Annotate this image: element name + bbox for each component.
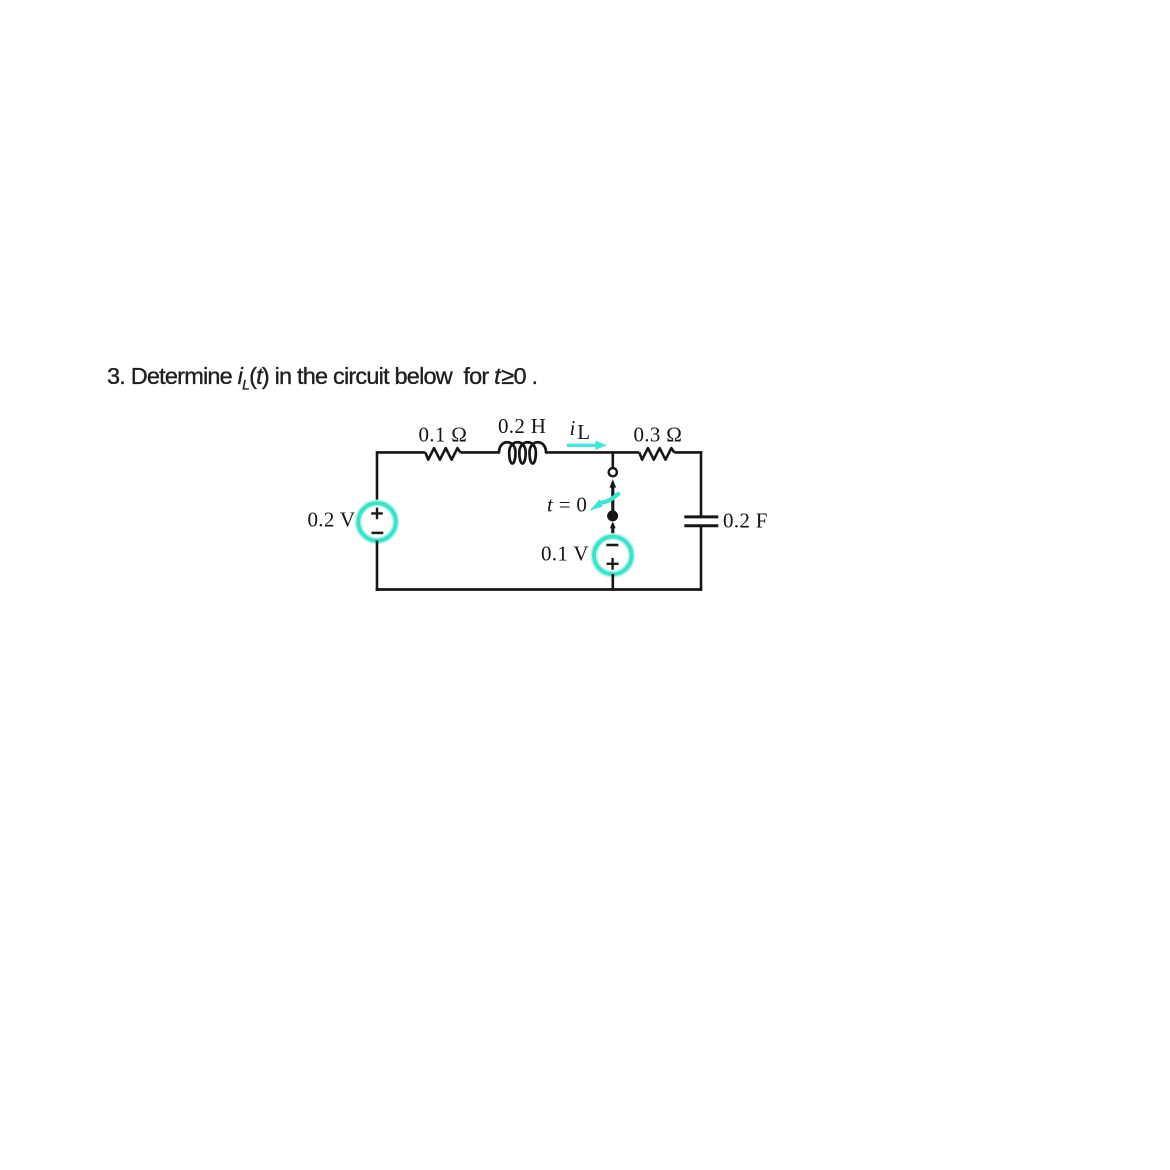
plus sign of V1 [371, 508, 383, 520]
minus sign of V2 [606, 544, 618, 547]
inductor L1 0.2 H [499, 442, 546, 463]
svg-text:0.2 V: 0.2 V [308, 508, 356, 532]
switch arm with arrowhead [610, 479, 617, 487]
iL current arrow (cyan) [567, 444, 596, 447]
voltage source V2 0.1 V circle [594, 537, 632, 575]
voltage source V1 0.2 V circle [358, 503, 396, 541]
svg-text:0.2 F: 0.2 F [723, 509, 768, 533]
svg-text:0.3 Ω: 0.3 Ω [634, 423, 683, 447]
left wire lower segment [376, 541, 379, 591]
switch motion arrow (cyan) [600, 493, 620, 504]
bottom wire [376, 588, 703, 591]
switch closed contact junction dot [607, 510, 618, 521]
wire top-left segment [377, 451, 426, 454]
switch branch wire from top node [611, 452, 614, 467]
resistor R2 0.3 ohm [639, 448, 674, 460]
wire resistor R2 to top-right corner [674, 451, 702, 454]
svg-text:0.2 H: 0.2 H [498, 414, 546, 438]
right wire upper segment [700, 451, 703, 517]
wire inductor to resistor R2 [546, 451, 639, 454]
switch open terminal node [609, 468, 617, 476]
svg-text:L: L [577, 420, 590, 444]
svg-text:t = 0: t = 0 [547, 493, 587, 517]
wire between resistor R1 and inductor [460, 451, 499, 454]
svg-text:0.1 V: 0.1 V [541, 542, 589, 566]
capacitor C1 0.2 F [684, 515, 718, 518]
right wire lower segment [700, 526, 703, 591]
svg-text:0.1 Ω: 0.1 Ω [419, 422, 468, 446]
left wire upper segment [376, 451, 379, 503]
plus sign of V2 [607, 558, 619, 570]
svg-text:i: i [570, 416, 576, 440]
wire V2 to bottom wire [611, 574, 614, 591]
arrowhead below dot [610, 522, 616, 529]
minus sign of V1 [372, 532, 384, 535]
resistor R1 0.1 ohm [425, 448, 460, 460]
